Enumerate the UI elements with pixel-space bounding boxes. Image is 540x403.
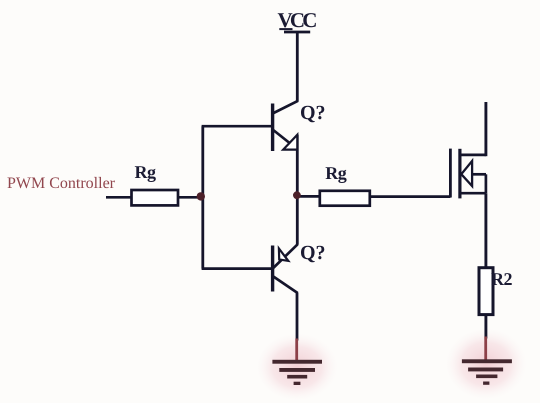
node A junction dot: [197, 192, 205, 200]
transistor Q2 emitter: [273, 244, 298, 268]
transistor Q1 emitter arrowhead: [283, 135, 297, 150]
transistor Q2 emitter arrowhead: [279, 249, 288, 261]
wire PWM input: [106, 196, 132, 199]
svg-text:Rg: Rg: [325, 163, 346, 183]
wire base top horizontal: [202, 125, 273, 128]
svg-text:Q?: Q?: [300, 242, 326, 264]
wire VCC stem: [296, 32, 299, 102]
transistor Q1 base bar: [271, 104, 274, 152]
resistor Rg2 body: [320, 191, 370, 206]
resistor R2 body: [479, 268, 493, 315]
mosfet M1 source horizontal: [460, 192, 486, 195]
pink halo right ground: [445, 328, 527, 400]
mosfet M1 gate bar: [449, 149, 452, 198]
wire output node to Q2 emitter: [296, 196, 299, 245]
node B junction dot: [293, 191, 301, 199]
resistor Rg1 body: [132, 190, 179, 205]
mosfet M1 body horizontal: [472, 173, 486, 176]
wire left vertical: [201, 126, 204, 268]
wire Rg1 to node A: [178, 196, 203, 199]
wire source to R2: [484, 193, 487, 268]
mosfet M1 body arrow: [461, 161, 472, 186]
ground middle: [272, 360, 322, 385]
label VCC underline: [279, 28, 292, 30]
wire Q2 collector to ground: [296, 293, 299, 341]
wire drain vertical: [484, 102, 487, 156]
svg-text:Q?: Q?: [300, 102, 326, 124]
pink halo middle ground: [256, 333, 338, 401]
svg-text:Rg: Rg: [135, 162, 156, 182]
wire Rg2 to gate: [370, 195, 451, 198]
ground stem middle (red): [295, 339, 298, 361]
ground right: [462, 359, 512, 385]
transistor Q2 base bar: [271, 246, 274, 292]
VCC bar: [284, 31, 310, 34]
transistor Q1 emitter: [273, 130, 297, 149]
ground stem right (red): [484, 337, 487, 361]
mosfet M1 body-source vertical: [485, 174, 488, 193]
wire Q1 emitter to output node: [296, 135, 299, 197]
wire R2 to ground stem: [484, 315, 487, 339]
svg-text:R2: R2: [491, 269, 512, 289]
mosfet M1 channel bar: [458, 149, 461, 199]
svg-text:PWM Controller: PWM Controller: [7, 175, 116, 192]
transistor Q1 collector: [273, 101, 298, 114]
transistor Q2 collector: [273, 276, 298, 293]
mosfet M1 drain horizontal: [460, 154, 486, 157]
wire base bottom horizontal: [202, 267, 273, 270]
wire node B to Rg2: [297, 195, 320, 198]
